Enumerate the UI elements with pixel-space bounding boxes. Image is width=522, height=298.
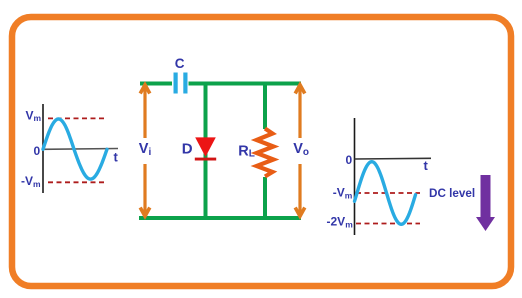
svg-text:-2Vm: -2Vm (327, 215, 354, 230)
dashed level line -Vm (input) (48, 181, 105, 183)
resistor RL zigzag (257, 129, 274, 177)
svg-text:0: 0 (346, 153, 353, 167)
input sine wave Vi (43, 119, 107, 179)
svg-text:-Vm: -Vm (333, 186, 353, 201)
svg-text:-Vm: -Vm (21, 174, 41, 189)
input waveform horizontal axis (t) (43, 148, 118, 151)
wire: resistor branch vertical (bottom) (263, 177, 267, 218)
svg-text:Vi: Vi (139, 141, 152, 158)
svg-text:Vo: Vo (293, 141, 309, 158)
input waveform vertical axis (42, 104, 44, 193)
wire: top horizontal (right of capacitor) (189, 82, 302, 86)
svg-text:DC level: DC level (429, 187, 475, 200)
dashed level line -Vm (output, DC level) (356, 192, 420, 194)
dashed level line +Vm (input) (48, 117, 105, 119)
svg-text:0: 0 (34, 144, 41, 158)
svg-text:t: t (424, 158, 429, 173)
wire: diode branch vertical (204, 84, 208, 219)
svg-text:RL: RL (238, 144, 255, 160)
svg-text:t: t (114, 150, 119, 165)
wire: bottom horizontal (139, 216, 301, 220)
svg-text:D: D (182, 140, 193, 157)
DC shift arrow (purple, downward) (476, 175, 495, 231)
Vi measurement arrow (double-headed, gap for label) (140, 85, 150, 217)
output sine wave Vo (clamped) (355, 162, 416, 225)
dashed level line -2Vm (output) (356, 223, 420, 225)
diode D (triangle + cathode bar) (195, 137, 216, 157)
svg-text:Vm: Vm (26, 108, 42, 123)
Vo measurement arrow (double-headed, gap for label) (295, 85, 305, 217)
svg-text:C: C (175, 56, 185, 71)
wire: resistor branch vertical (top) (263, 84, 267, 130)
wire: top horizontal (left of capacitor) (140, 82, 172, 86)
output waveform horizontal axis (t) (355, 157, 432, 160)
capacitor C plates (174, 73, 178, 94)
output waveform vertical axis (354, 118, 356, 235)
